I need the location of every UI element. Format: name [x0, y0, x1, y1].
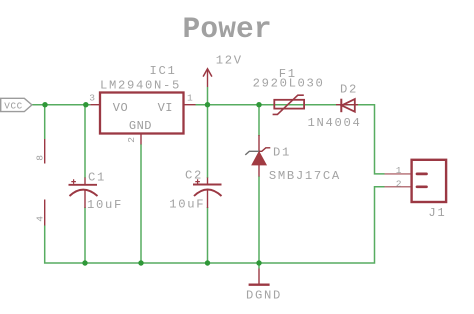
- svg-text:DGND: DGND: [246, 288, 282, 302]
- svg-text:J1: J1: [428, 206, 446, 220]
- svg-text:C1: C1: [88, 170, 106, 184]
- svg-text:4: 4: [35, 216, 46, 222]
- svg-text:VI: VI: [158, 101, 173, 115]
- svg-text:10uF: 10uF: [169, 197, 205, 211]
- svg-text:IC1: IC1: [150, 64, 177, 78]
- svg-text:1: 1: [187, 92, 193, 103]
- svg-text:GND: GND: [129, 119, 152, 133]
- svg-text:2920L030: 2920L030: [253, 77, 325, 91]
- svg-text:12V: 12V: [216, 54, 243, 68]
- svg-text:VCC: VCC: [4, 100, 23, 111]
- svg-text:D2: D2: [340, 83, 358, 97]
- svg-text:2: 2: [396, 178, 402, 189]
- svg-text:3: 3: [89, 92, 95, 103]
- svg-text:8: 8: [34, 155, 45, 161]
- svg-text:1: 1: [396, 165, 402, 176]
- svg-text:C2: C2: [185, 168, 203, 182]
- svg-text:VO: VO: [113, 101, 128, 115]
- svg-text:Power: Power: [183, 12, 272, 46]
- svg-text:LM2940N-5: LM2940N-5: [100, 78, 181, 92]
- svg-text:SMBJ17CA: SMBJ17CA: [269, 169, 341, 183]
- svg-text:2: 2: [126, 137, 137, 143]
- svg-text:1N4004: 1N4004: [308, 116, 362, 130]
- svg-text:10uF: 10uF: [87, 198, 123, 212]
- svg-text:D1: D1: [273, 146, 291, 160]
